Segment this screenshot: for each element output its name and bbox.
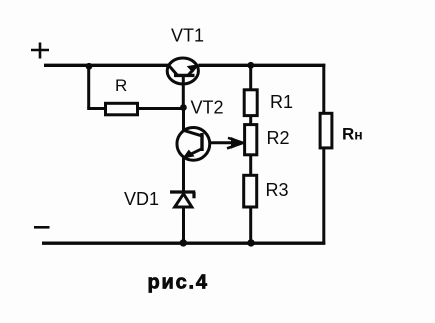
node VT2 collector junction (180, 104, 187, 111)
svg-text:R3: R3 (266, 180, 289, 200)
wire from R to VT2 collector node (137, 107, 184, 110)
wire R3 to bottom rail (249, 207, 252, 244)
transistor VT2 (177, 127, 210, 160)
svg-text:VT1: VT1 (171, 26, 204, 46)
svg-text:VD1: VD1 (124, 189, 159, 209)
wire bottom rail (42, 241, 325, 244)
wire VT2 collector lead (182, 108, 185, 132)
node junction top-left (86, 63, 93, 70)
node divider bottom junction (247, 239, 254, 246)
node bottom junction under VD1 (180, 239, 187, 246)
svg-text:R2: R2 (267, 128, 290, 148)
resistor R (106, 103, 138, 115)
wire R1 to R2 (249, 116, 252, 126)
svg-text:VT2: VT2 (191, 98, 224, 118)
svg-text:R1: R1 (270, 92, 293, 112)
potentiometer wiper arrow (227, 138, 243, 149)
minus terminal (34, 226, 50, 229)
wire from top rail to R1 (249, 65, 252, 90)
wire into resistor R (87, 107, 106, 110)
transistor VT1 (167, 58, 198, 84)
wire R2 to R3 (249, 155, 252, 177)
wire top right segment (199, 64, 326, 67)
zener diode VD1 (170, 192, 195, 207)
svg-text:R: R (115, 76, 127, 95)
resistor R3 (244, 175, 257, 207)
plus terminal (31, 43, 49, 59)
wire load branch upper (322, 64, 325, 114)
wire VD1 anode to ground rail (182, 208, 185, 243)
wire VT1 base lead (182, 76, 185, 108)
wire VT2 emitter lead (182, 157, 185, 192)
resistor Rн load (320, 113, 332, 148)
svg-text:Rн: Rн (342, 125, 363, 144)
wire VT2 base lead / wiper shaft (211, 141, 237, 144)
wire top left segment (44, 64, 168, 67)
wire load branch lower (322, 148, 325, 245)
wire down from top-left junction (87, 65, 90, 108)
resistor R1 (244, 90, 257, 116)
potentiometer R2 body (245, 125, 257, 155)
svg-text:рис.4: рис.4 (148, 272, 209, 294)
node divider top junction (247, 62, 254, 69)
